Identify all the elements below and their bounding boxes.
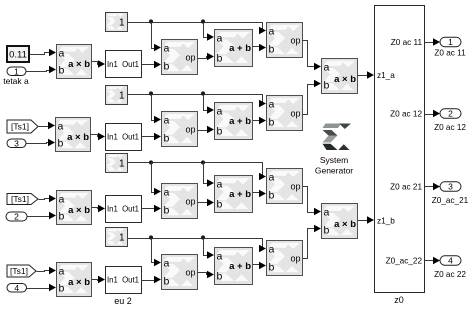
wire z1_b to z0	[358, 216, 375, 224]
svg-text:op: op	[185, 197, 195, 207]
svg-text:Out1: Out1	[122, 276, 139, 285]
svg-text:Out1: Out1	[122, 205, 139, 214]
wire constant to adder a row3	[204, 163, 215, 187]
wire constant to adder a row4	[204, 239, 215, 259]
svg-text:a: a	[164, 258, 170, 270]
adder a+b row3	[215, 176, 253, 213]
wire z0 to outport 4	[425, 257, 441, 265]
svg-text:a × b: a × b	[68, 59, 90, 70]
svg-text:Z0 ac 12: Z0 ac 12	[434, 123, 466, 132]
adder a+b row1	[215, 30, 253, 67]
wire constant net row3	[128, 160, 267, 180]
svg-text:b: b	[269, 44, 275, 56]
wire constant to op1 a row3	[152, 163, 162, 196]
svg-text:Z0_ac_21: Z0_ac_21	[432, 196, 469, 205]
svg-text:2: 2	[448, 109, 453, 119]
wire constant to op1 a row1	[152, 23, 162, 52]
svg-text:1: 1	[14, 66, 19, 76]
wire source a row3	[39, 195, 57, 203]
svg-text:4: 4	[448, 256, 453, 266]
svg-text:b: b	[59, 211, 65, 223]
svg-text:z1_a: z1_a	[377, 71, 395, 80]
z0 output label Z0_ac_22	[386, 257, 423, 266]
svg-text:a: a	[324, 207, 330, 219]
wire constant net row4	[128, 235, 267, 252]
outport label Z0 ac 11	[434, 49, 466, 58]
svg-text:[Ts1]: [Ts1]	[11, 194, 29, 204]
wire z0 to outport 3	[425, 183, 441, 191]
svg-text:1: 1	[119, 159, 125, 170]
subsystem In1/Out1 row1	[106, 51, 142, 78]
svg-text:z1_b: z1_b	[377, 217, 395, 226]
wire source b row3	[28, 212, 57, 220]
wire adder to op2 b row3	[253, 190, 267, 198]
multiplier a×b row2	[56, 118, 91, 152]
svg-text:a: a	[58, 121, 64, 133]
outport label Z0_ac_21	[432, 196, 469, 205]
adder a+b row4	[215, 248, 253, 285]
adder a+b row2	[215, 103, 253, 140]
wire op1 to adder b row1	[198, 53, 215, 61]
svg-text:op: op	[290, 182, 300, 192]
xilinx constant 1 row4	[106, 228, 128, 247]
wire constant net row2	[128, 91, 267, 107]
svg-text:b: b	[269, 190, 275, 202]
svg-text:b: b	[217, 53, 223, 65]
subsystem In1/Out1 row3	[106, 196, 142, 223]
wire subsystem to op1 b row2	[142, 133, 162, 141]
svg-text:a + b: a + b	[229, 189, 251, 200]
wire mult to subsystem row1	[92, 60, 106, 68]
wire op2 to z1 row1	[303, 41, 322, 71]
inport 4	[7, 283, 27, 293]
wire op2 to z1 row3	[303, 187, 322, 216]
wire op1 to adder b row2	[198, 126, 215, 134]
label tetak a	[3, 76, 29, 86]
wire subsystem to op1 b row3	[142, 205, 162, 213]
svg-text:op: op	[290, 254, 300, 264]
svg-text:a: a	[269, 26, 275, 38]
svg-text:a × b: a × b	[68, 277, 90, 288]
outport label Z0 ac 22	[434, 270, 466, 279]
label z0	[394, 295, 404, 305]
svg-text:a + b: a + b	[229, 116, 251, 127]
wire mult to subsystem row4	[92, 276, 106, 284]
multiplier a×b row1	[57, 45, 92, 79]
svg-text:b: b	[269, 117, 275, 129]
svg-text:b: b	[217, 126, 223, 138]
svg-text:a: a	[269, 99, 275, 111]
op block 2 row4	[267, 241, 303, 276]
svg-text:eu 2: eu 2	[114, 296, 132, 306]
multiplier a×b row3	[57, 191, 92, 225]
svg-text:In1: In1	[107, 133, 118, 142]
op block 2 row1	[267, 23, 303, 58]
svg-text:a × b: a × b	[67, 132, 89, 143]
wire op1 to adder b row3	[198, 199, 215, 207]
svg-text:b: b	[58, 138, 64, 150]
z0 output label Z0_ac_11	[391, 38, 423, 47]
svg-text:a: a	[59, 266, 65, 278]
op block 1 row2	[162, 112, 198, 147]
svg-text:a: a	[217, 179, 223, 191]
constant block 0.11	[7, 46, 29, 62]
label System Generator	[315, 155, 353, 176]
from tag Ts1 row2	[7, 120, 38, 133]
system generator logo	[323, 124, 352, 151]
svg-text:op: op	[185, 125, 195, 135]
svg-text:a: a	[217, 251, 223, 263]
svg-text:op: op	[290, 109, 300, 119]
svg-text:Z0 ac 21: Z0 ac 21	[390, 183, 422, 192]
wire op2 to z1 row2	[303, 80, 322, 115]
svg-text:Out1: Out1	[122, 60, 139, 69]
wire constant to op1 a row4	[152, 239, 162, 267]
svg-text:Z0 ac 11: Z0 ac 11	[391, 38, 423, 47]
svg-text:b: b	[269, 262, 275, 274]
inport 2	[6, 212, 27, 222]
svg-text:a × b: a × b	[334, 74, 356, 85]
wire source a row1	[30, 49, 57, 57]
svg-text:a: a	[269, 244, 275, 256]
svg-text:a: a	[164, 43, 170, 55]
outport 1	[440, 37, 461, 47]
multiplier a×b row4	[57, 263, 92, 297]
label eu 2	[114, 296, 132, 306]
svg-text:a: a	[164, 187, 170, 199]
from tag Ts1 row4	[7, 265, 36, 277]
svg-text:3: 3	[448, 182, 453, 192]
svg-text:a: a	[269, 172, 275, 184]
wire subsystem to op1 b row1	[142, 61, 162, 69]
wire op1 to adder b row4	[198, 271, 215, 279]
subsystem z0	[375, 6, 425, 293]
xilinx constant 1 row2	[106, 86, 128, 105]
svg-text:[Ts1]: [Ts1]	[11, 122, 29, 132]
svg-text:b: b	[164, 276, 170, 288]
inport 1 (tetak a)	[7, 66, 26, 76]
wire z1_a to z0	[358, 71, 375, 79]
wire constant to op1 a row2	[152, 95, 162, 124]
svg-text:In1: In1	[107, 205, 118, 214]
svg-text:a × b: a × b	[68, 205, 90, 216]
svg-text:[Ts1]: [Ts1]	[10, 266, 28, 276]
svg-text:op: op	[185, 53, 195, 63]
svg-text:b: b	[164, 133, 170, 145]
svg-text:b: b	[164, 205, 170, 217]
wire constant to adder a row2	[204, 95, 215, 114]
op block 2 row3	[267, 169, 303, 204]
wire mult to subsystem row3	[92, 205, 106, 213]
svg-text:Z0 ac 22: Z0 ac 22	[434, 270, 466, 279]
subsystem In1/Out1 row2	[106, 124, 142, 151]
wire z0 to outport 2	[425, 110, 441, 118]
svg-text:Z0 ac 11: Z0 ac 11	[434, 49, 466, 58]
wire source a row2	[39, 122, 56, 130]
svg-text:Z0_ac_22: Z0_ac_22	[386, 257, 423, 266]
wire z0 to outport 1	[425, 38, 441, 46]
svg-text:b: b	[59, 65, 65, 77]
svg-text:0.11: 0.11	[9, 50, 27, 61]
svg-text:3: 3	[14, 138, 19, 148]
svg-text:a: a	[59, 194, 65, 206]
svg-text:Out1: Out1	[122, 133, 139, 142]
xilinx constant 1 row3	[106, 154, 128, 173]
svg-text:a × b: a × b	[334, 219, 356, 230]
svg-text:b: b	[59, 283, 65, 295]
wire source b row2	[27, 139, 56, 147]
svg-text:System: System	[320, 155, 348, 165]
from tag Ts1 row3	[7, 194, 38, 205]
wire constant net row1	[128, 19, 267, 34]
svg-text:a: a	[59, 48, 65, 60]
svg-text:1: 1	[119, 233, 125, 244]
svg-text:a: a	[217, 33, 223, 45]
outport label Z0 ac 12	[434, 123, 466, 132]
outport 4	[440, 256, 461, 266]
op block 1 row4	[162, 255, 198, 290]
svg-text:b: b	[217, 271, 223, 283]
multiplier z1_b	[322, 204, 358, 239]
svg-text:a + b: a + b	[229, 261, 251, 272]
wire source a row4	[37, 267, 57, 275]
svg-text:In1: In1	[107, 276, 118, 285]
svg-text:In1: In1	[107, 60, 118, 69]
svg-text:b: b	[164, 61, 170, 73]
svg-text:4: 4	[14, 283, 19, 293]
svg-text:a: a	[217, 106, 223, 118]
wire subsystem to op1 b row4	[142, 276, 162, 284]
svg-text:a + b: a + b	[229, 43, 251, 54]
wire constant to adder a row1	[204, 23, 215, 41]
svg-text:b: b	[217, 199, 223, 211]
inport 3	[7, 138, 26, 148]
svg-text:1: 1	[119, 18, 125, 29]
op block 2 row2	[267, 96, 303, 131]
svg-text:tetak a: tetak a	[3, 76, 29, 86]
svg-text:a: a	[164, 115, 170, 127]
wire adder to op2 b row1	[253, 44, 267, 52]
op block 1 row3	[162, 184, 198, 219]
wire adder to op2 b row2	[253, 117, 267, 125]
wire mult to subsystem row2	[91, 133, 106, 141]
wire source b row1	[27, 66, 57, 74]
svg-text:1: 1	[448, 37, 453, 47]
z0 output label Z0_ac_21	[390, 183, 422, 192]
wire source b row4	[27, 284, 57, 292]
subsystem In1/Out1 row4	[106, 267, 142, 294]
svg-text:b: b	[324, 80, 330, 92]
wire op2 to z1 row4	[303, 225, 322, 259]
multiplier z1_a	[322, 59, 358, 94]
op block 1 row1	[162, 40, 198, 75]
outport 2	[440, 109, 461, 119]
z0 output label Z0_ac_12	[390, 110, 422, 119]
svg-text:z0: z0	[394, 295, 404, 305]
svg-text:1: 1	[119, 91, 125, 102]
svg-text:op: op	[290, 36, 300, 46]
svg-text:b: b	[324, 225, 330, 237]
z0 input label z1_a	[377, 71, 395, 80]
svg-text:a: a	[324, 62, 330, 74]
svg-text:2: 2	[14, 212, 19, 222]
wire adder to op2 b row4	[253, 262, 267, 270]
svg-text:op: op	[185, 268, 195, 278]
svg-text:Generator: Generator	[315, 166, 353, 176]
svg-text:Z0 ac 12: Z0 ac 12	[390, 110, 422, 119]
z0 input label z1_b	[377, 217, 395, 226]
outport 3	[440, 182, 461, 192]
xilinx constant 1 row1	[106, 13, 128, 32]
